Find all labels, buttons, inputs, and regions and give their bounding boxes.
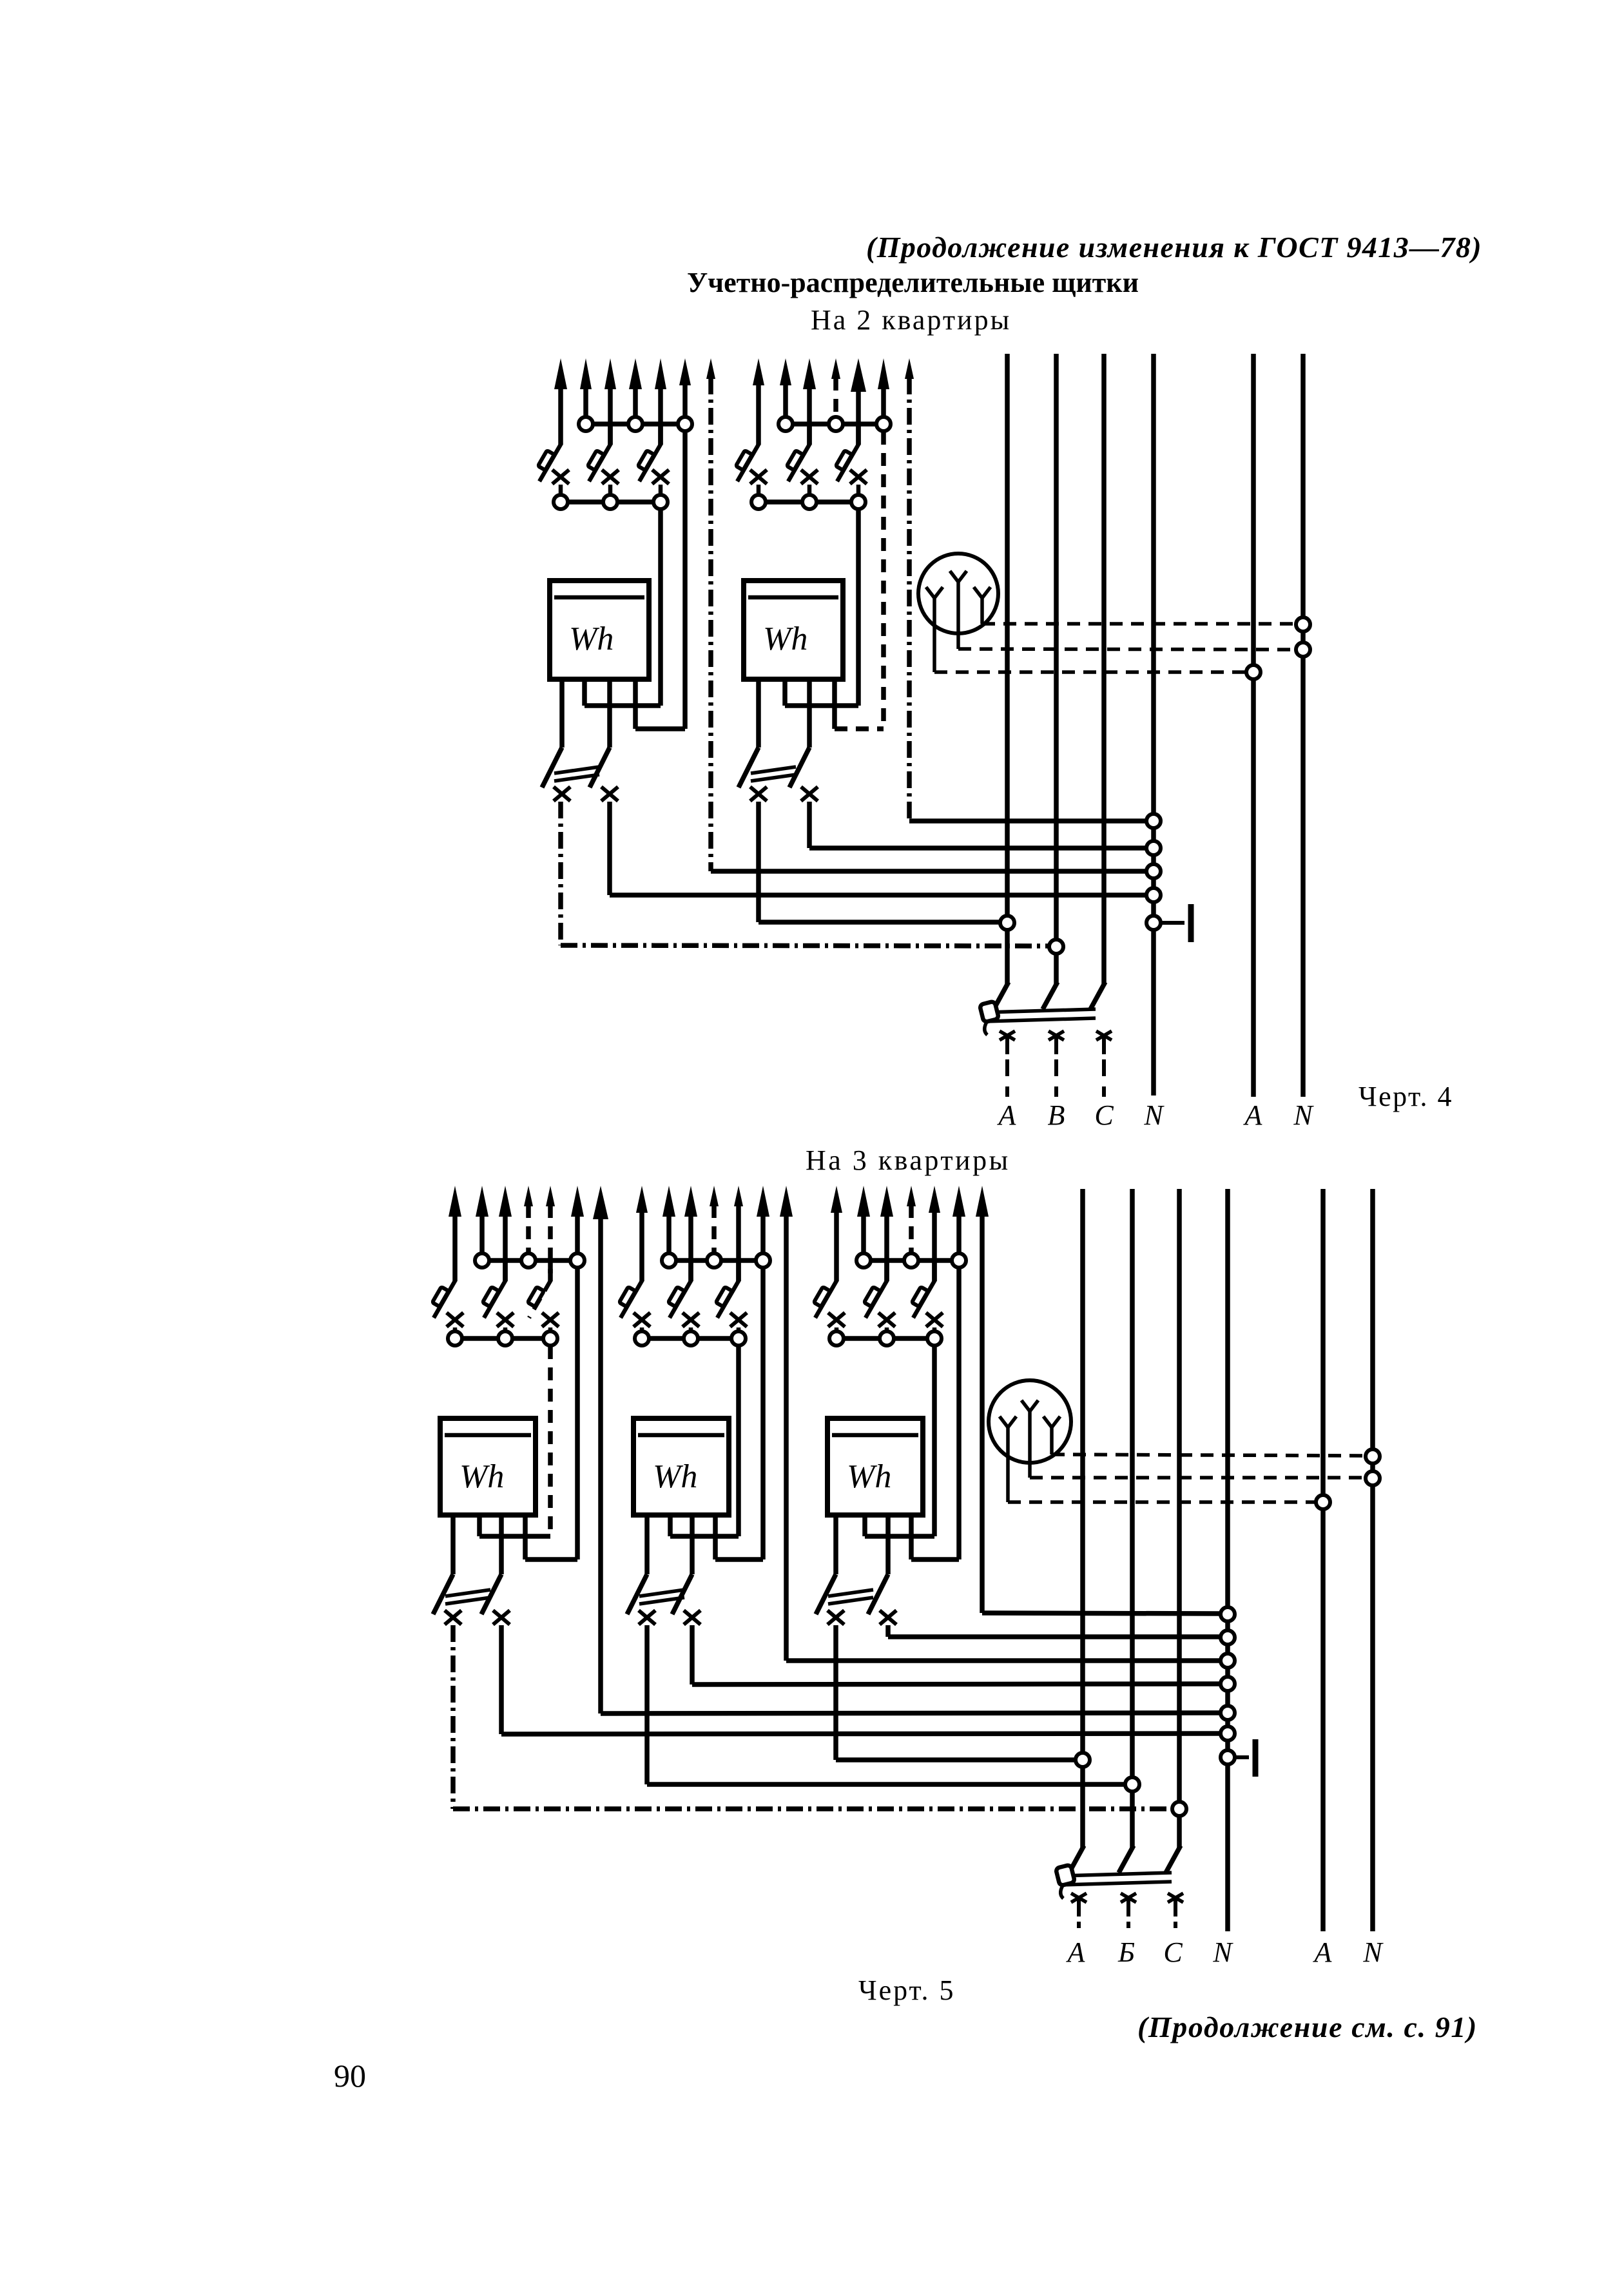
wire outgoing line grp1.7 xyxy=(706,358,715,379)
wire feed meter3 xyxy=(548,1346,553,1536)
switch Wh3 S bar xyxy=(445,1590,490,1604)
terminal grp2 a xyxy=(778,417,793,431)
terminal grp3 e xyxy=(498,1331,512,1346)
terminal grp1 d xyxy=(554,495,568,509)
switch Wh1 S bar xyxy=(554,767,599,781)
switch Wh1 S pole1 xyxy=(542,679,562,787)
terminal grp2 f xyxy=(851,495,865,509)
wire Wh4 pole2 out xyxy=(692,1625,1221,1684)
wire outgoing line grp4.5 xyxy=(734,1186,743,1281)
text page number xyxy=(334,2058,366,2094)
junction A-tap xyxy=(1000,916,1014,930)
svg-text:Б: Б xyxy=(1117,1936,1135,1968)
riser B d1 xyxy=(1043,354,1058,1009)
svg-text:Wh: Wh xyxy=(459,1458,504,1495)
wire upper bus grp1 xyxy=(586,421,685,427)
wire outgoing line grp5.4 xyxy=(907,1186,916,1253)
svg-text:С: С xyxy=(1163,1936,1183,1968)
text Чертёж 4 xyxy=(1358,1081,1453,1112)
junction N-7 xyxy=(1221,1654,1235,1668)
terminal grp2 c xyxy=(876,417,891,431)
wire upper bus grp2 xyxy=(786,421,884,427)
riser A d2 xyxy=(1069,1189,1084,1873)
terminal grp1 b xyxy=(628,417,643,431)
junction N-5 xyxy=(1221,1607,1235,1621)
svg-text:(Продолжение изменения к ГОСТ: (Продолжение изменения к ГОСТ 9413—78) xyxy=(866,231,1482,264)
wire upper bus grp5 xyxy=(864,1258,959,1263)
wire outgoing line grp5.3 xyxy=(880,1186,893,1281)
wire outgoing line grp4.7 xyxy=(780,1186,793,1217)
wire outgoing line grp5.5 xyxy=(929,1186,940,1281)
label А d1 xyxy=(997,1099,1017,1131)
svg-text:Wh: Wh xyxy=(763,621,807,657)
meter Wh5 box xyxy=(827,1418,923,1515)
socket-group lamp2 xyxy=(989,1380,1071,1502)
wire lamp2 to N2 upper xyxy=(1052,1454,1366,1456)
plug contact B d2 xyxy=(1121,1893,1136,1932)
svg-text:(Продолжение см. с. 91): (Продолжение см. с. 91) xyxy=(1137,2011,1478,2043)
meter Wh4 box xyxy=(633,1418,729,1515)
wire Wh1 pole1 out xyxy=(561,802,1049,946)
label Б d2 xyxy=(1117,1936,1135,1968)
plug contact C d1 xyxy=(1096,1031,1112,1097)
contact Wh3 X2 xyxy=(493,1610,510,1625)
wire lamp1 to N2 upper xyxy=(982,622,1296,626)
terminal grp3 b xyxy=(521,1253,536,1268)
junction N-10 xyxy=(1221,1726,1235,1741)
fuse-switch grp4.Q2 xyxy=(668,1260,699,1331)
wire Wh5 neutral stub xyxy=(911,1515,959,1559)
svg-text:В: В xyxy=(1048,1099,1065,1131)
switch Wh2 S bar xyxy=(751,767,796,781)
junction lamp2-N2a xyxy=(1366,1449,1380,1463)
label А d1 xyxy=(1243,1099,1263,1131)
junction N-3 xyxy=(1146,864,1161,878)
terminal grp5 c xyxy=(952,1253,966,1268)
fuse-switch grp3.Q3 xyxy=(528,1260,559,1331)
fuse-switch grp5.Q3 xyxy=(912,1260,943,1331)
svg-text:N: N xyxy=(1143,1099,1165,1131)
wire outgoing line grp4.4 xyxy=(710,1186,719,1253)
terminal grp1 e xyxy=(603,495,617,509)
terminal grp3 d xyxy=(448,1331,462,1346)
riser N d1 xyxy=(1151,354,1156,1096)
wire outgoing line grp1.1 xyxy=(554,358,567,445)
wire outgoing line grp5.6 xyxy=(952,1186,965,1253)
wire grp4 riser line xyxy=(786,1205,1221,1661)
connector bar d2 xyxy=(1056,1865,1172,1898)
svg-text:Wh: Wh xyxy=(653,1458,697,1495)
svg-text:А: А xyxy=(1313,1936,1333,1968)
wire outgoing line grp2.1 xyxy=(753,358,764,445)
wire upper bus grp4 xyxy=(669,1258,763,1263)
contact Wh2 X2 xyxy=(801,787,818,801)
label А d2 xyxy=(1066,1936,1086,1968)
fuse-switch grp3.Q1 xyxy=(432,1280,463,1331)
wire outgoing line grp5.1 xyxy=(831,1186,842,1281)
wire grp3 riser line xyxy=(601,1205,1221,1713)
wire outgoing line grp3.2 xyxy=(476,1186,488,1253)
switch Wh4 S pole1 xyxy=(627,1515,647,1614)
wire outgoing line grp4.3 xyxy=(684,1186,697,1281)
switch Wh4 S bar xyxy=(639,1590,684,1604)
wire Wh1 coil loop xyxy=(585,679,661,706)
ground terminal 2 xyxy=(1235,1739,1255,1777)
plug contact A d1 xyxy=(1000,1031,1015,1097)
terminal grp5 e xyxy=(880,1331,894,1346)
wire outgoing line grp1.6 xyxy=(679,358,691,416)
wire outgoing line grp3.3 xyxy=(499,1186,512,1281)
junction N-9 xyxy=(1221,1706,1235,1720)
text title xyxy=(687,267,1139,298)
junction N-6 xyxy=(1221,1630,1235,1645)
terminal grp1 c xyxy=(678,417,692,431)
wire Wh2 neutral stub xyxy=(835,679,884,729)
fuse-switch grp2.Q1 xyxy=(736,443,767,494)
terminal grp4 b xyxy=(707,1253,721,1268)
wire Wh3 pole2 out xyxy=(501,1625,1221,1734)
wire lamp2 to A2 xyxy=(1008,1500,1316,1504)
fuse-switch grp4.Q3 xyxy=(716,1260,747,1331)
wire feed meter4 xyxy=(736,1346,741,1536)
meter Wh3 box xyxy=(440,1418,536,1515)
terminal grp3 f xyxy=(543,1331,557,1346)
wire Wh1 pole2 out xyxy=(610,802,1146,895)
wire neutral drop grp5 xyxy=(956,1268,962,1559)
wire lamp2 to N2 lower xyxy=(1030,1476,1366,1480)
wire neutral drop grp1 xyxy=(682,432,688,729)
svg-text:Учетно-распределительные щитки: Учетно-распределительные щитки xyxy=(687,267,1139,298)
label С d1 xyxy=(1094,1099,1114,1131)
wire lower bus grp4 xyxy=(642,1336,739,1341)
meter Wh2 box xyxy=(744,581,843,679)
junction lamp2-N2b xyxy=(1366,1471,1380,1485)
svg-text:Черт. 5: Черт. 5 xyxy=(858,1974,955,2006)
wire outgoing line grp3.6 xyxy=(571,1186,584,1253)
terminal grp4 e xyxy=(684,1331,698,1346)
wire lower bus grp3 xyxy=(455,1336,550,1341)
label N d2 xyxy=(1212,1936,1233,1968)
contact Wh3 X1 xyxy=(445,1610,461,1625)
terminal grp4 d xyxy=(635,1331,649,1346)
riser C d1 xyxy=(1090,354,1105,1009)
switch Wh4 S pole2 xyxy=(672,1536,692,1614)
fuse-switch grp4.Q1 xyxy=(619,1280,650,1331)
text continuation footer xyxy=(1137,2011,1478,2043)
wire lower bus grp1 xyxy=(561,499,661,505)
svg-text:С: С xyxy=(1094,1099,1114,1131)
connector bar d1 xyxy=(980,1001,1096,1035)
svg-text:N: N xyxy=(1362,1936,1384,1968)
meter Wh4 label xyxy=(653,1458,697,1495)
riser B d2 xyxy=(1119,1189,1134,1873)
wire Wh5 pole2 out xyxy=(888,1625,1221,1637)
terminal grp2 e xyxy=(802,495,817,509)
svg-text:Wh: Wh xyxy=(569,621,614,657)
contact Wh4 X2 xyxy=(684,1610,701,1625)
wire grp5 riser line xyxy=(982,1205,1221,1614)
wire outgoing line grp4.2 xyxy=(662,1186,675,1253)
wire outgoing line grp1.4 xyxy=(629,358,642,416)
ground terminal 1 xyxy=(1161,904,1191,942)
meter Wh2 label xyxy=(763,621,807,657)
svg-text:90: 90 xyxy=(334,2058,366,2094)
terminal grp4 f xyxy=(731,1331,746,1346)
junction C-tap d2 xyxy=(1172,1802,1186,1816)
fuse-switch grp1.Q3 xyxy=(638,424,669,494)
riser A2 d2 xyxy=(1320,1189,1326,1931)
svg-text:На 2 квартиры: На 2 квартиры xyxy=(811,304,1011,336)
wire Wh3 pole1 out xyxy=(453,1625,1172,1809)
switch Wh2 S pole1 xyxy=(739,679,759,787)
svg-text:N: N xyxy=(1293,1099,1314,1131)
wire lamp1 to N2 lower xyxy=(958,649,1296,650)
fuse-switch grp1.Q2 xyxy=(588,424,619,494)
wire feed meter5 xyxy=(932,1346,937,1536)
riser A d1 xyxy=(994,354,1009,1009)
label N d1 xyxy=(1143,1099,1165,1131)
label N d1 xyxy=(1293,1099,1314,1131)
fuse-switch grp2.Q2 xyxy=(787,424,818,494)
contact Wh2 X1 xyxy=(750,787,767,801)
wire outgoing line grp3.1 xyxy=(449,1186,461,1281)
wire outgoing line grp4.6 xyxy=(757,1186,769,1253)
wire outgoing line grp2.3 xyxy=(803,358,816,445)
label С d2 xyxy=(1163,1936,1183,1968)
junction N-2 xyxy=(1146,841,1161,855)
wire Wh4 coil loop xyxy=(670,1515,739,1536)
junction N-ground d2 xyxy=(1221,1750,1235,1764)
terminal grp1 a xyxy=(579,417,593,431)
wire neutral drop grp3 xyxy=(575,1268,580,1559)
terminal grp2 b xyxy=(829,417,843,431)
junction N-ground xyxy=(1146,916,1161,930)
fuse-switch grp5.Q1 xyxy=(814,1280,845,1331)
wire outgoing line grp2.5 xyxy=(851,358,866,445)
terminal grp5 f xyxy=(927,1331,942,1346)
label В d1 xyxy=(1048,1099,1065,1131)
wire Wh3 coil loop xyxy=(479,1515,550,1536)
label N d2 xyxy=(1362,1936,1384,1968)
plug contact C d2 xyxy=(1168,1893,1183,1932)
label А d2 xyxy=(1313,1936,1333,1968)
junction B-tap xyxy=(1049,940,1063,954)
terminal grp5 b xyxy=(904,1253,918,1268)
riser A2 d1 xyxy=(1251,354,1256,1097)
wire feed meter1 xyxy=(658,510,663,706)
meter Wh1 label xyxy=(569,621,614,657)
fuse-switch grp1.Q1 xyxy=(538,443,569,494)
plug contact B d1 xyxy=(1049,1031,1064,1097)
meter Wh5 label xyxy=(847,1458,891,1495)
wire outgoing line grp1.2 xyxy=(580,358,592,416)
fuse-switch grp3.Q2 xyxy=(483,1260,514,1331)
text subtitle 2 apartments xyxy=(811,304,1011,336)
wire grp2 riser line xyxy=(909,378,1146,821)
wire Wh2 pole1 out xyxy=(759,802,1000,922)
contact Wh4 X1 xyxy=(639,1610,655,1625)
riser N d2 xyxy=(1225,1189,1230,1931)
junction N-8 xyxy=(1221,1677,1235,1691)
svg-text:На 3 квартиры: На 3 квартиры xyxy=(806,1144,1010,1176)
junction lamp1-N2a xyxy=(1296,617,1310,632)
riser N2 d2 xyxy=(1370,1189,1375,1931)
switch Wh5 S pole1 xyxy=(816,1515,836,1614)
contact Wh5 X2 xyxy=(880,1610,896,1625)
switch Wh2 S pole2 xyxy=(789,706,809,787)
wire outgoing line grp3.7 xyxy=(593,1186,608,1219)
svg-text:Wh: Wh xyxy=(847,1458,891,1495)
svg-text:А: А xyxy=(997,1099,1017,1131)
switch Wh1 S pole2 xyxy=(590,706,610,787)
fuse-switch grp2.Q3 xyxy=(836,424,867,494)
junction lamp1-A2 xyxy=(1246,665,1261,679)
wire lower bus grp2 xyxy=(759,499,858,505)
wire grp1 riser line xyxy=(711,378,1146,871)
wire outgoing line grp2.6 xyxy=(878,358,889,416)
riser N2 d1 xyxy=(1300,354,1306,1097)
wire neutral drop grp2 xyxy=(881,432,886,729)
wire outgoing line grp2.4 xyxy=(831,358,840,416)
wire outgoing line grp1.3 xyxy=(604,358,616,445)
junction lamp2-A2 xyxy=(1316,1495,1330,1509)
wire Wh1 neutral stub xyxy=(635,679,685,729)
svg-text:N: N xyxy=(1212,1936,1233,1968)
wire outgoing line grp3.5 xyxy=(546,1186,555,1281)
switch Wh3 S pole1 xyxy=(433,1515,453,1614)
svg-text:А: А xyxy=(1243,1099,1263,1131)
wire outgoing line grp2.7 xyxy=(905,358,914,379)
meter Wh3 label xyxy=(459,1458,504,1495)
meter Wh1 box xyxy=(550,581,649,679)
junction N-1 xyxy=(1146,814,1161,828)
svg-text:А: А xyxy=(1066,1936,1086,1968)
wire lower bus grp5 xyxy=(836,1336,934,1341)
junction lamp1-N2b xyxy=(1296,642,1310,657)
wire outgoing line grp3.4 xyxy=(524,1186,533,1253)
terminal grp3 a xyxy=(475,1253,489,1268)
wire Wh2 pole2 out xyxy=(809,802,1146,848)
wire outgoing line grp5.7 xyxy=(976,1186,989,1217)
wire outgoing line grp4.1 xyxy=(636,1186,648,1281)
contact Wh1 X2 xyxy=(601,787,618,801)
plug contact A d2 xyxy=(1071,1893,1087,1932)
wire outgoing line grp1.5 xyxy=(655,358,666,445)
wire Wh4 neutral stub xyxy=(715,1515,763,1559)
text header continuation xyxy=(866,231,1482,264)
switch Wh3 S pole2 xyxy=(481,1536,501,1614)
riser C d2 xyxy=(1166,1189,1181,1873)
wire outgoing line grp5.2 xyxy=(857,1186,870,1253)
svg-text:Черт. 4: Черт. 4 xyxy=(1358,1081,1453,1112)
wire Wh5 pole1 out xyxy=(836,1625,1076,1760)
junction N-4 xyxy=(1146,888,1161,902)
socket-group lamp1 xyxy=(918,554,998,672)
wire neutral drop grp4 xyxy=(760,1268,766,1559)
wire outgoing line grp2.2 xyxy=(780,358,791,416)
junction A-tap d2 xyxy=(1076,1753,1090,1767)
text subtitle 3 apartments xyxy=(806,1144,1010,1176)
wire upper bus grp3 xyxy=(482,1258,577,1263)
terminal grp1 f xyxy=(653,495,668,509)
text Чертёж 5 xyxy=(858,1974,955,2006)
terminal grp4 c xyxy=(756,1253,770,1268)
wire Wh5 coil loop xyxy=(865,1515,934,1536)
switch Wh5 S bar xyxy=(828,1590,873,1604)
wire feed meter2 xyxy=(856,510,861,706)
terminal grp4 a xyxy=(662,1253,676,1268)
terminal grp5 a xyxy=(856,1253,871,1268)
wire Wh4 pole1 out xyxy=(647,1625,1125,1784)
fuse-switch grp5.Q2 xyxy=(864,1260,895,1331)
terminal grp3 c xyxy=(570,1253,585,1268)
terminal grp5 d xyxy=(829,1331,844,1346)
junction B-tap d2 xyxy=(1125,1777,1139,1791)
wire Wh3 neutral stub xyxy=(525,1515,577,1559)
switch Wh5 S pole2 xyxy=(868,1536,888,1614)
wire Wh2 coil loop xyxy=(785,679,858,706)
terminal grp2 d xyxy=(751,495,766,509)
wire lamp1 to A2 xyxy=(934,670,1246,674)
contact Wh1 X1 xyxy=(554,787,570,801)
contact Wh5 X1 xyxy=(827,1610,844,1625)
